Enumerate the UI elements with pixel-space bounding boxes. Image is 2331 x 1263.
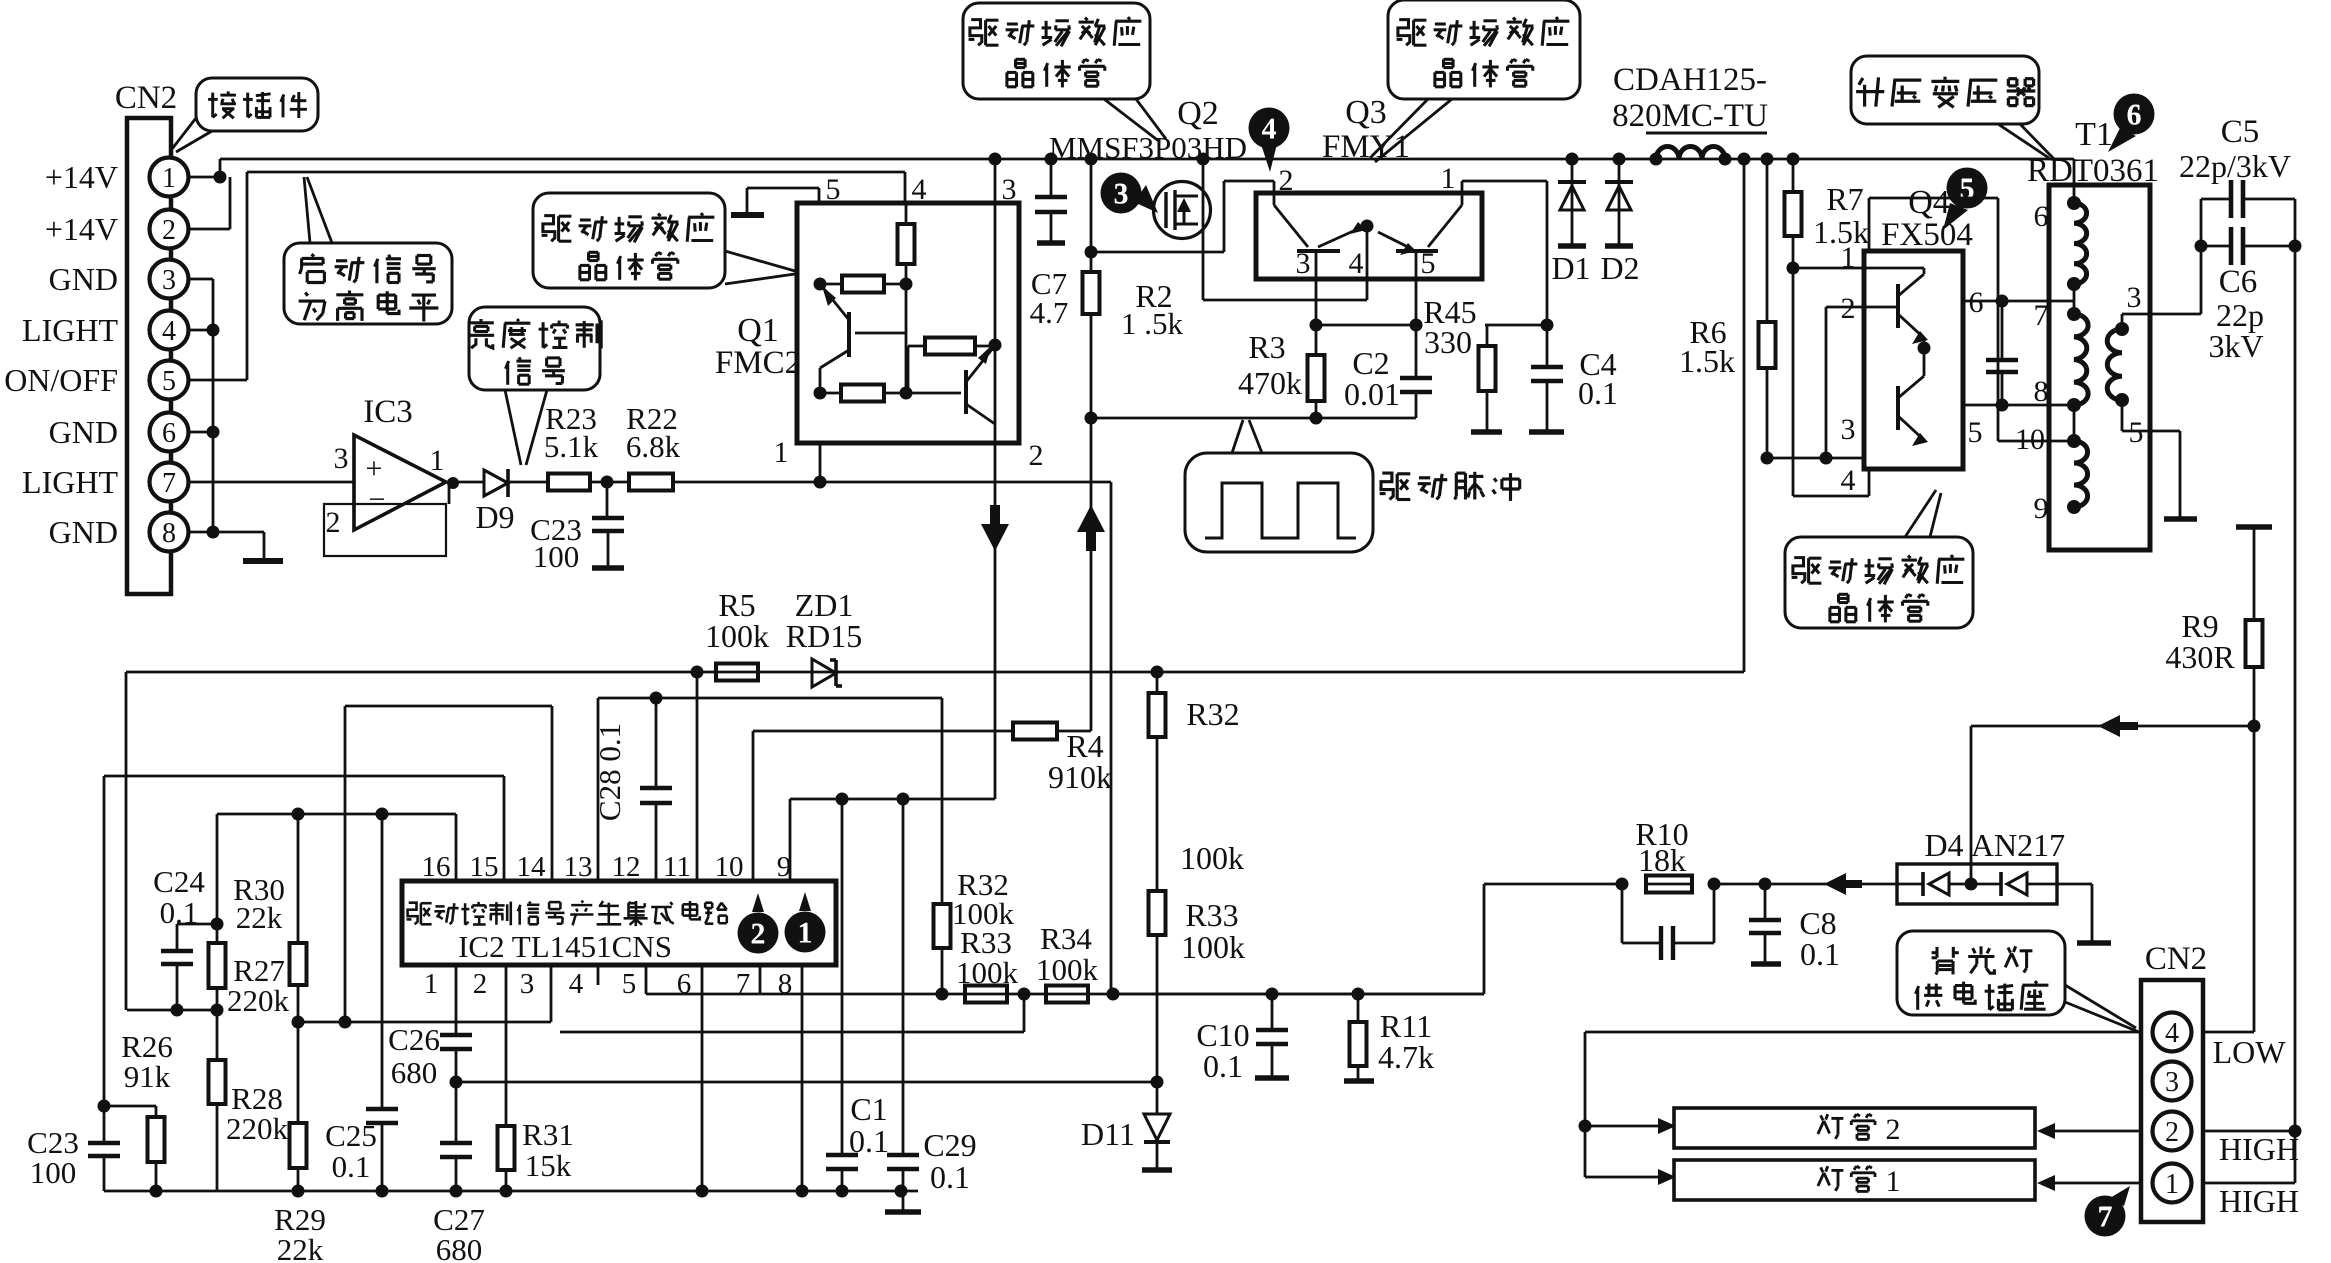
- svg-text:5: 5: [162, 366, 176, 397]
- svg-text:0.1: 0.1: [1800, 936, 1840, 972]
- svg-text:IC2 TL1451CNS: IC2 TL1451CNS: [458, 929, 672, 964]
- svg-text:4: 4: [1841, 464, 1856, 497]
- svg-text:+14V: +14V: [45, 211, 118, 247]
- svg-text:2: 2: [162, 215, 176, 246]
- svg-text:Q2: Q2: [1177, 95, 1219, 132]
- svg-text:16: 16: [422, 851, 451, 883]
- svg-text:FX504: FX504: [1881, 217, 1973, 253]
- svg-text:R7: R7: [1826, 181, 1863, 217]
- svg-text:3: 3: [334, 442, 349, 475]
- svg-text:T1: T1: [2075, 116, 2113, 153]
- svg-text:Q3: Q3: [1345, 94, 1387, 131]
- svg-text:220k: 220k: [227, 983, 290, 1018]
- svg-text:4: 4: [912, 173, 927, 206]
- svg-text:100k: 100k: [1181, 929, 1245, 965]
- svg-text:12: 12: [612, 851, 641, 883]
- svg-text:1.5k: 1.5k: [1679, 343, 1735, 379]
- svg-text:4: 4: [2165, 1018, 2179, 1049]
- svg-text:R34: R34: [1040, 921, 1092, 956]
- svg-text:5: 5: [826, 173, 841, 206]
- svg-text:HIGH: HIGH: [2219, 1131, 2299, 1167]
- svg-text:3kV: 3kV: [2208, 328, 2263, 364]
- svg-text:10: 10: [2015, 423, 2045, 456]
- svg-text:ON/OFF: ON/OFF: [4, 362, 118, 398]
- svg-text:C29: C29: [923, 1127, 976, 1163]
- svg-text:D9: D9: [475, 499, 514, 535]
- svg-text:100: 100: [30, 1155, 77, 1190]
- svg-text:6.8k: 6.8k: [626, 429, 681, 464]
- svg-text:15k: 15k: [525, 1148, 572, 1183]
- svg-text:15: 15: [470, 851, 499, 883]
- svg-text:0.1: 0.1: [160, 895, 199, 930]
- svg-text:7: 7: [2034, 299, 2049, 332]
- svg-text:CDAH125-: CDAH125-: [1613, 62, 1767, 98]
- svg-text:5: 5: [1960, 173, 1975, 206]
- svg-text:3: 3: [2127, 281, 2142, 314]
- svg-text:0.1: 0.1: [1203, 1048, 1243, 1084]
- svg-text:D1: D1: [1551, 250, 1590, 286]
- svg-text:LIGHT: LIGHT: [22, 464, 118, 500]
- svg-text:8: 8: [2034, 375, 2049, 408]
- svg-text:14: 14: [517, 851, 547, 883]
- svg-text:C28 0.1: C28 0.1: [592, 723, 627, 821]
- svg-text:6: 6: [2127, 99, 2142, 132]
- svg-text:LOW: LOW: [2213, 1034, 2287, 1070]
- svg-text:13: 13: [564, 851, 593, 883]
- svg-text:LIGHT: LIGHT: [22, 312, 118, 348]
- svg-text:0.1: 0.1: [930, 1159, 970, 1195]
- svg-text:R3: R3: [1248, 329, 1285, 365]
- svg-text:820MC-TU: 820MC-TU: [1612, 98, 1768, 134]
- svg-text:4: 4: [1349, 247, 1364, 280]
- svg-text:3: 3: [2165, 1067, 2179, 1098]
- svg-text:GND: GND: [49, 261, 118, 297]
- svg-text:7: 7: [2098, 1201, 2113, 1234]
- svg-text:D2: D2: [1600, 250, 1639, 286]
- svg-text:2: 2: [1279, 164, 1294, 197]
- svg-text:680: 680: [391, 1055, 438, 1090]
- svg-text:220k: 220k: [226, 1111, 289, 1146]
- svg-text:470k: 470k: [1238, 365, 1302, 401]
- svg-text:1: 1: [430, 444, 445, 477]
- svg-text:1: 1: [162, 163, 176, 194]
- svg-text:2: 2: [1886, 1113, 1901, 1146]
- svg-text:1 .5k: 1 .5k: [1121, 306, 1184, 341]
- svg-text:R31: R31: [522, 1117, 574, 1152]
- svg-text:IC3: IC3: [363, 394, 413, 430]
- svg-text:1: 1: [1441, 162, 1456, 195]
- svg-text:GND: GND: [49, 514, 118, 550]
- svg-text:5: 5: [1968, 416, 1983, 449]
- svg-text:4.7: 4.7: [1030, 295, 1069, 330]
- svg-text:1: 1: [1886, 1165, 1901, 1198]
- svg-text:0.1: 0.1: [332, 1149, 371, 1184]
- svg-text:6: 6: [1969, 286, 1984, 319]
- svg-text:5: 5: [622, 968, 637, 1000]
- svg-text:AN217: AN217: [1971, 827, 2065, 863]
- svg-text:910k: 910k: [1048, 759, 1112, 795]
- svg-text:5.1k: 5.1k: [544, 429, 599, 464]
- svg-text:3: 3: [1114, 178, 1129, 211]
- svg-text:9: 9: [2034, 492, 2049, 525]
- svg-text:GND: GND: [49, 414, 118, 450]
- svg-text:6: 6: [162, 418, 176, 449]
- svg-text:C25: C25: [325, 1118, 377, 1153]
- svg-text:100k: 100k: [1036, 952, 1099, 987]
- svg-text:HIGH: HIGH: [2219, 1183, 2299, 1219]
- svg-text:22p/3kV: 22p/3kV: [2179, 148, 2291, 184]
- svg-text:D11: D11: [1081, 1116, 1135, 1152]
- svg-text:8: 8: [162, 518, 176, 549]
- svg-text:91k: 91k: [124, 1059, 171, 1094]
- svg-text:4: 4: [1262, 113, 1277, 146]
- svg-text:100: 100: [533, 539, 580, 574]
- svg-text:22k: 22k: [277, 1232, 324, 1263]
- svg-text:Q4: Q4: [1908, 184, 1950, 221]
- svg-text:+: +: [366, 452, 383, 485]
- svg-text:RD15: RD15: [786, 618, 862, 654]
- svg-text:4.7k: 4.7k: [1378, 1039, 1434, 1075]
- svg-text:3: 3: [1841, 413, 1856, 446]
- svg-text:FMY1: FMY1: [1322, 129, 1410, 165]
- svg-text:100k: 100k: [1180, 840, 1244, 876]
- svg-text:0.01: 0.01: [1344, 376, 1400, 412]
- svg-text:CN2: CN2: [2145, 941, 2207, 977]
- svg-text:2: 2: [1841, 292, 1856, 325]
- svg-text:4: 4: [162, 316, 176, 347]
- svg-text:330: 330: [1424, 324, 1472, 360]
- svg-text:CN2: CN2: [115, 80, 177, 116]
- svg-text:MMSF3P03HD: MMSF3P03HD: [1049, 130, 1247, 165]
- svg-text:1: 1: [2165, 1169, 2179, 1200]
- svg-text:R33: R33: [1185, 897, 1238, 933]
- svg-text:100k: 100k: [705, 618, 769, 654]
- svg-text:C1: C1: [850, 1091, 887, 1127]
- svg-text:C24: C24: [153, 864, 205, 899]
- svg-text:0.1: 0.1: [1578, 375, 1618, 411]
- svg-text:430R: 430R: [2165, 639, 2235, 675]
- svg-text:11: 11: [663, 851, 691, 883]
- svg-text:D4: D4: [1924, 827, 1963, 863]
- svg-text:2: 2: [326, 506, 341, 539]
- svg-text:3: 3: [162, 265, 176, 296]
- svg-text:100k: 100k: [956, 955, 1019, 990]
- svg-text:1: 1: [1841, 241, 1856, 274]
- svg-text:1: 1: [798, 917, 813, 950]
- svg-text:5: 5: [2129, 416, 2144, 449]
- svg-text:3: 3: [1002, 173, 1017, 206]
- svg-text:2: 2: [751, 918, 766, 951]
- svg-text:2: 2: [2165, 1117, 2179, 1148]
- svg-text:Q1: Q1: [737, 312, 779, 349]
- svg-text:0.1: 0.1: [849, 1123, 889, 1159]
- svg-text:C6: C6: [2219, 264, 2258, 300]
- svg-text:1: 1: [424, 968, 439, 1000]
- svg-text:FMC2: FMC2: [715, 345, 801, 381]
- svg-text:2: 2: [473, 968, 488, 1000]
- svg-text:R32: R32: [1186, 696, 1239, 732]
- svg-text:4: 4: [569, 968, 584, 1000]
- svg-text:+14V: +14V: [45, 159, 118, 195]
- svg-text:−: −: [369, 483, 386, 516]
- svg-text:18k: 18k: [1638, 842, 1686, 878]
- svg-text:10: 10: [715, 851, 744, 883]
- svg-text:22k: 22k: [236, 900, 283, 935]
- svg-text:3: 3: [520, 968, 535, 1000]
- svg-text:7: 7: [162, 468, 176, 499]
- svg-text:1: 1: [774, 436, 789, 469]
- svg-text:C26: C26: [388, 1022, 440, 1057]
- svg-text:C5: C5: [2221, 114, 2260, 150]
- svg-text:2: 2: [1029, 439, 1044, 472]
- svg-text:680: 680: [436, 1232, 483, 1263]
- svg-text:6: 6: [2034, 200, 2049, 233]
